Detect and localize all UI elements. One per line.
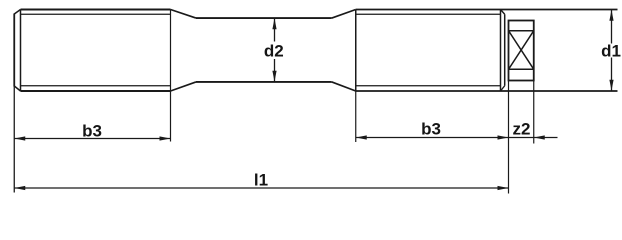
extension line start of right thread (x=356) [355,91,357,142]
b3 right arrow left [356,135,367,139]
d2 arrow up [272,18,276,29]
stud left end face [13,14,15,87]
b3 left dimension line [14,138,170,140]
right end bottom chamfer [501,86,505,91]
d1 dimension line lower [611,58,613,91]
z2 dimension line [509,137,534,139]
d2 arrow down [272,71,276,82]
extension line left (x=14) [13,87,15,193]
d1 arrow up [609,10,613,21]
right cone bottom [332,82,356,91]
b3 left arrow right [160,136,171,140]
thread root line top left [21,13,171,15]
left chamfer circle line [20,10,22,92]
svg-text:b3: b3 [421,120,441,139]
d1 dimension line upper [611,10,613,44]
thread root line top right [356,13,501,15]
square end box [509,21,534,81]
svg-text:d2: d2 [264,42,284,61]
extension line box right (x=533.75) [533,81,535,144]
left end bottom chamfer [14,86,20,91]
right end top chamfer [501,10,505,15]
d1 arrow down [609,80,613,91]
right chamfer circle line [500,10,502,92]
shank top line [196,17,332,19]
thread root line bottom left [21,85,171,87]
b3 right dimension line [356,137,509,139]
b3 left arrow left [14,136,25,140]
d2 dimension line lower [274,59,276,82]
square end inner bottom line [509,68,534,70]
extension line end of left thread (x=170) [170,10,172,142]
bottom outer line left thread [21,90,171,92]
square end diagonal 1 [509,31,534,70]
svg-text:l1: l1 [254,171,268,190]
l1 arrow left [14,186,25,190]
square end diagonal 2 [509,31,534,70]
bottom outer line right thread with d1 extension [356,90,618,92]
l1 dimension line [14,187,508,189]
left cone top [171,10,197,19]
right end face [504,14,506,86]
l1 arrow right [498,186,509,190]
shank bottom line [196,81,332,83]
svg-text:b3: b3 [82,122,102,141]
square end inner top line [509,30,534,32]
left end top chamfer [14,10,20,15]
left cone bottom [171,82,197,91]
d2 dimension line upper [274,18,276,41]
right cone top [332,10,356,19]
b3 right arrow right [498,135,509,139]
svg-text:z2: z2 [513,120,531,139]
z2 arrow tail line [534,137,558,139]
z2 outside arrow right [534,135,545,139]
extension line box left (x=508.5) [508,81,510,194]
svg-text:d1: d1 [601,42,621,61]
thread root line bottom right [356,85,501,87]
top outer line right thread with d1 extension [356,9,618,11]
top outer line left thread [21,9,171,11]
right thread start line [355,10,357,92]
